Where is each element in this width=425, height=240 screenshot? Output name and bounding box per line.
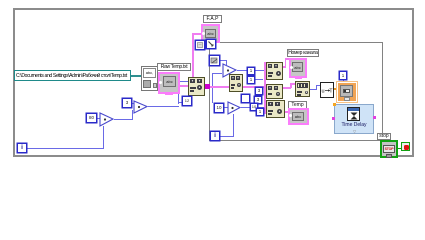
svg-text:T: T [329,89,333,95]
svg-text:u: u [322,89,325,95]
